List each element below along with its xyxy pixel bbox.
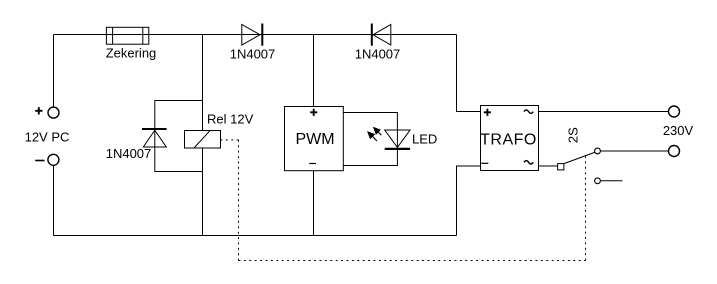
wire switch bottom contact stub	[601, 180, 623, 182]
label - sign TRAFO	[481, 162, 488, 164]
wire bottom rail	[54, 235, 457, 237]
wire TRAFO right top to 230V terminal	[539, 111, 669, 113]
wire LED loop bottom	[343, 150, 397, 166]
wire diode branch top horizontal	[155, 100, 203, 102]
label + sign 12V	[35, 107, 42, 114]
label + sign PWM	[310, 109, 317, 116]
wire diode branch bottom horizontal	[155, 171, 203, 173]
svg-text:Rel 12V: Rel 12V	[207, 112, 254, 127]
wire main vertical node	[202, 35, 204, 236]
linkage dotted relay to switch	[221, 140, 586, 261]
label - sign PWM	[309, 163, 316, 165]
wire diode branch vertical	[154, 101, 156, 172]
label ~ top TRAFO	[524, 110, 533, 113]
wire LED loop top	[343, 113, 397, 148]
diode D2 1N4007 (top, pointing left)	[372, 24, 391, 46]
svg-text:Zekering: Zekering	[106, 46, 157, 61]
svg-text:LED: LED	[412, 132, 437, 147]
label - sign 12V	[35, 160, 44, 162]
label ~ bottom TRAFO	[524, 161, 533, 164]
LED D4	[385, 130, 410, 149]
label + sign TRAFO	[484, 109, 491, 116]
wire PWM branch vertical top	[313, 35, 315, 107]
svg-text:12V PC: 12V PC	[25, 130, 70, 145]
wire bottom rail rise to TRAFO	[457, 166, 481, 236]
svg-text:2S: 2S	[565, 127, 580, 143]
wire left column top (plus terminal to top rail)	[53, 35, 55, 108]
terminal - (12V PC minus)	[48, 154, 59, 165]
diode D1 1N4007 (top, pointing right)	[242, 24, 262, 46]
transformer TRAFO	[481, 106, 539, 171]
wire top rail	[54, 34, 457, 36]
relay K1 Rel 12V coil	[185, 130, 221, 148]
terminal + (12V PC plus)	[48, 107, 59, 118]
svg-text:230V: 230V	[663, 123, 694, 138]
wire PWM branch vertical bottom	[313, 171, 315, 236]
LED arrows	[368, 128, 381, 141]
switch S2 contact top	[595, 148, 601, 154]
svg-text:PWM: PWM	[295, 131, 334, 148]
svg-text:TRAFO: TRAFO	[480, 132, 537, 149]
switch S2 pivot square	[558, 164, 564, 170]
PWM module U1	[285, 107, 344, 171]
wire TRAFO right bottom to switch	[539, 165, 558, 167]
svg-text:1N4007: 1N4007	[355, 46, 401, 61]
terminal 230V top	[669, 106, 680, 117]
wire top rail drop to TRAFO	[457, 35, 481, 112]
wire left column bottom (minus terminal to bottom rail)	[53, 166, 55, 236]
switch S2 contact bottom	[595, 178, 601, 184]
terminal 230V bottom	[669, 146, 680, 157]
fuse F1 Zekering	[106, 27, 148, 44]
switch S2 blade	[564, 152, 595, 163]
diode D3 1N4007 (flyback, pointing up)	[142, 129, 167, 147]
wire switch top contact to 230V terminal	[601, 150, 669, 152]
svg-text:1N4007: 1N4007	[106, 146, 152, 161]
svg-text:1N4007: 1N4007	[230, 46, 276, 61]
